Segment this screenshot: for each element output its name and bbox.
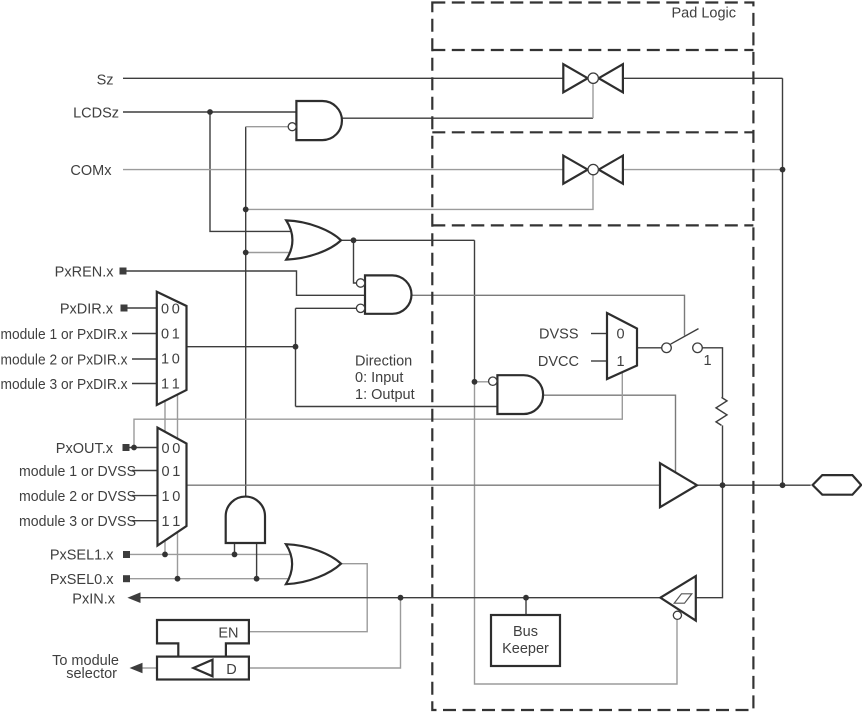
svg-text:Pad Logic: Pad Logic: [672, 6, 737, 22]
node to-module arrow: [130, 663, 143, 674]
svg-text:PxDIR.x: PxDIR.x: [60, 302, 114, 318]
wire TG2 control row: [246, 175, 593, 210]
wire bus keeper stub: [525, 598, 527, 615]
wire OR U2 lower input: [246, 252, 298, 254]
component EN latch box: [157, 620, 249, 657]
svg-text:selector: selector: [66, 666, 117, 682]
wire PxSEL1.x row: [127, 553, 298, 555]
wire switch to resistor: [702, 348, 722, 398]
wire resistor to pad: [722, 425, 724, 485]
wire OR U6 output to EN: [249, 564, 367, 632]
svg-text:D: D: [226, 662, 236, 678]
svg-text:1: 1: [704, 353, 712, 369]
wire PxIN tap to D latch: [249, 598, 401, 668]
wire DVSS stub: [591, 333, 607, 335]
wire LCDSz branch to OR U2: [210, 112, 298, 231]
wire pad row: [697, 484, 811, 486]
wire module1 PxDIR stub: [132, 333, 157, 335]
op-amp U1 LCDSz gate: [288, 101, 342, 140]
label Direction legend: [355, 354, 415, 404]
wire module1 DVSS stub: [132, 470, 158, 472]
wire Sz row: [123, 77, 783, 79]
wire U3 output to switch control: [412, 295, 685, 335]
svg-text:Keeper: Keeper: [502, 641, 549, 657]
svg-text:1: Output: 1: Output: [355, 387, 415, 403]
wire PxIN.x row: [137, 597, 660, 599]
op-amp U8 input Schmitt buffer: [660, 576, 695, 621]
wire PxDIR.x stub: [127, 307, 157, 309]
svg-text:PxSEL1.x: PxSEL1.x: [50, 548, 114, 564]
wire DVCC stub: [591, 360, 607, 362]
transistor TG1 transmission gate: [563, 64, 623, 92]
svg-text:Direction: Direction: [355, 354, 412, 370]
wire module2 DVSS stub: [132, 495, 158, 497]
wire PxOUT.x stub: [130, 447, 158, 449]
wire LCD enable vertical net: [245, 127, 247, 497]
resistor R1: [716, 397, 727, 425]
node square PxREN.x: [120, 268, 127, 275]
pad pin hexagon: [813, 475, 862, 495]
wire TG1 control stub: [592, 84, 594, 119]
wire COMx row: [123, 169, 783, 171]
svg-text:0: Input: 0: Input: [355, 370, 403, 386]
wire to module selector line: [142, 667, 157, 669]
wire U2 output branch to U3: [354, 240, 357, 283]
node PxIN arrow: [127, 592, 140, 603]
wire mux1 select lines: [165, 395, 178, 579]
wire module3 DVSS stub: [132, 520, 158, 522]
svg-text:0: 0: [616, 327, 624, 343]
wire direction branch up to U3: [295, 308, 297, 406]
mux M2 PxOUT: [158, 428, 187, 546]
wire Schmitt input: [696, 485, 723, 598]
svg-text:module 2 or PxDIR.x: module 2 or PxDIR.x: [1, 353, 129, 369]
node square PxDIR.x: [121, 305, 128, 312]
node square PxOUT.x: [123, 444, 130, 451]
svg-text:DVCC: DVCC: [538, 354, 579, 370]
mux M1 PxDIR: [157, 292, 187, 405]
wire mux2 output row: [187, 484, 661, 486]
svg-text:EN: EN: [218, 625, 238, 641]
wire direction net: [187, 346, 296, 348]
transistor TG2 transmission gate: [563, 156, 623, 184]
svg-text:module 1 or DVSS: module 1 or DVSS: [19, 464, 136, 480]
wire PxSEL0.x row: [127, 578, 298, 580]
wire module3 PxDIR stub: [132, 383, 157, 385]
wire LCDSz row: [123, 111, 296, 113]
node square PxSEL1.x: [123, 551, 130, 558]
op-amp U4 resistor-enable AND gate: [489, 375, 544, 414]
wire Schmitt enable path: [475, 382, 678, 684]
component D latch box: [157, 657, 249, 680]
wire stub into U1 bubble: [246, 126, 289, 128]
svg-text:LCDSz: LCDSz: [73, 106, 119, 122]
wire mux3 output to switch: [637, 347, 662, 349]
svg-text:PxOUT.x: PxOUT.x: [56, 441, 114, 457]
Pad Logic dashed border: [432, 3, 753, 711]
svg-text:PxIN.x: PxIN.x: [72, 592, 115, 608]
switch S1: [662, 329, 703, 353]
op-amp U3 direction AND gate: [356, 275, 411, 313]
wire stub into U4 bubble: [475, 381, 489, 383]
wire pad bus vertical: [782, 78, 784, 485]
component Bus Keeper: [491, 615, 560, 666]
svg-text:module 1 or PxDIR.x: module 1 or PxDIR.x: [1, 327, 129, 343]
op-amp U5 PxSEL AND gate: [226, 497, 265, 543]
wire U5 input stubs: [235, 543, 257, 579]
svg-text:PxSEL0.x: PxSEL0.x: [50, 572, 114, 588]
wire direction branch to U4: [296, 406, 498, 408]
wire U4 output to driver control: [543, 395, 676, 472]
svg-text:PxREN.x: PxREN.x: [55, 265, 115, 281]
wire module2 PxDIR stub: [132, 358, 157, 360]
wire PxREN.x row: [127, 271, 366, 295]
mux M3 DVSS DVCC: [607, 313, 637, 379]
wire U1 output to TG1 control: [342, 117, 593, 119]
svg-text:module 3 or PxDIR.x: module 3 or PxDIR.x: [1, 377, 129, 393]
node square PxSEL0.x: [123, 575, 130, 582]
svg-text:1: 1: [616, 354, 624, 370]
svg-text:COMx: COMx: [70, 163, 112, 179]
svg-text:Bus: Bus: [513, 624, 538, 640]
svg-text:DVSS: DVSS: [539, 327, 579, 343]
op-amp U2 OR gate: [286, 220, 341, 259]
wire U2 output net: [341, 239, 475, 241]
wire PxOUT to mux3 select: [134, 372, 622, 447]
op-amp U7 output driver: [660, 463, 697, 507]
svg-text:module 3 or DVSS: module 3 or DVSS: [19, 514, 136, 530]
op-amp U6 PxSEL OR gate: [286, 544, 341, 584]
wire PxSEL net vertical: [474, 240, 476, 381]
svg-text:module 2 or DVSS: module 2 or DVSS: [19, 489, 136, 505]
svg-text:Sz: Sz: [97, 73, 114, 89]
